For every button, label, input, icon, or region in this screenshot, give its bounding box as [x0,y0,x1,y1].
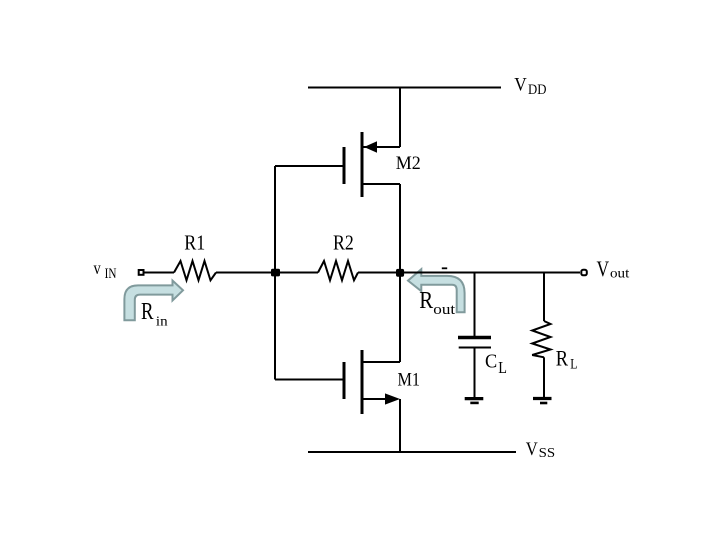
svg-text:v: v [94,258,101,278]
svg-text:out: out [433,302,456,318]
svg-text:R: R [419,287,433,314]
svg-text:DD: DD [528,82,547,98]
svg-text:V: V [597,256,610,281]
svg-text:out: out [610,266,629,282]
svg-text:R: R [556,347,569,371]
svg-text:R2: R2 [333,231,354,255]
svg-text:L: L [498,358,507,377]
svg-text:IN: IN [105,266,117,282]
svg-text:in: in [156,315,168,330]
svg-text:R: R [141,299,154,325]
svg-text:V: V [526,439,538,460]
svg-text:C: C [485,352,497,373]
svg-text:M2: M2 [396,153,421,174]
svg-text:SS: SS [539,445,556,460]
svg-text:R1: R1 [184,231,205,255]
svg-text:V: V [514,74,527,95]
svg-text:L: L [570,357,577,373]
svg-text:M1: M1 [398,371,421,391]
